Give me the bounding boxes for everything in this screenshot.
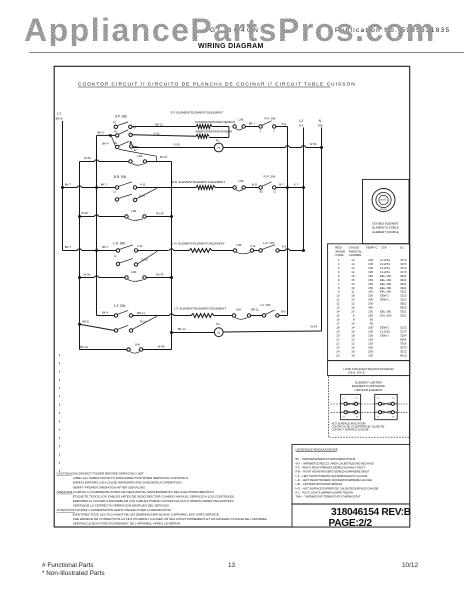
- svg-text:W-39: W-39: [81, 211, 88, 215]
- svg-text:L.R. - LEFT REAR/TRASERO IZQUI: L.R. - LEFT REAR/TRASERO IZQUIERDO/ARRIE…: [296, 478, 373, 482]
- svg-text:4A: 4A: [133, 127, 136, 130]
- svg-text:9-A: 9-A: [299, 124, 304, 128]
- svg-text:W-39: W-39: [84, 156, 91, 160]
- svg-text:INNER/INTERIOR/INTERIEUR: INNER/INTERIOR/INTERIEUR: [195, 130, 232, 134]
- svg-text:L.R. SW.: L.R. SW.: [113, 242, 126, 246]
- svg-text:N: N: [319, 119, 322, 123]
- svg-text:BK-11: BK-11: [155, 123, 163, 127]
- svg-text:L2: L2: [273, 190, 276, 194]
- svg-text:CAUTION:DISCONNECT POWER BEFOR: CAUTION:DISCONNECT POWER BEFORE SERVICIN…: [57, 472, 145, 476]
- svg-text:L1: L1: [57, 112, 61, 116]
- svg-text:R1-97: R1-97: [156, 273, 164, 277]
- svg-text:L.R. ELEMENT/ELEMENTO/ELEMENT: L.R. ELEMENT/ELEMENTO/ELEMENT: [172, 242, 225, 246]
- svg-text:LIM. - LIMITER/LIMITADOR/LIMIT: LIM. - LIMITER/LIMITADOR/LIMITEUR: [296, 482, 343, 486]
- svg-text:2: 2: [260, 128, 262, 132]
- svg-text:BK-7: BK-7: [249, 121, 256, 125]
- svg-text:W-54: W-54: [310, 324, 317, 328]
- svg-text:W.F. - WARMER ZONE(CO). AREA C: W.F. - WARMER ZONE(CO). AREA CALIENTE/ZO…: [296, 461, 374, 465]
- svg-text:318046154 REV:B: 318046154 REV:B: [331, 507, 411, 518]
- svg-text:L.F. - LEFT FRONT/FRENTE IZQUI: L.F. - LEFT FRONT/FRENTE IZQUIERDO/AVANT…: [296, 474, 368, 478]
- svg-text:ATTENTION:COUPEZ L'ALIMENTATIO: ATTENTION:COUPEZ L'ALIMENTATION AVANT D'…: [57, 508, 172, 512]
- svg-text:IDENTIFIEZ TOUS LES FILS AVANT: IDENTIFIEZ TOUS LES FILS AVANT DE LES DE…: [73, 513, 220, 517]
- svg-text:L2: L2: [299, 119, 303, 123]
- svg-text:S.P. ELEMENT/ELEMENTO/ELEMENT: S.P. ELEMENT/ELEMENTO/ELEMENT: [170, 111, 223, 115]
- svg-text:BK-7: BK-7: [65, 183, 72, 187]
- svg-text:VERIFIEZ LE BON FONCTIONNEMENT: VERIFIEZ LE BON FONCTIONNEMENT DE L'APPA…: [73, 522, 181, 526]
- svg-text:W-39: W-39: [84, 273, 91, 277]
- svg-text:SEW-1: SEW-1: [380, 334, 389, 338]
- svg-text:3251: 3251: [400, 314, 407, 318]
- svg-text:8510: 8510: [400, 353, 407, 357]
- svg-text:S.P. SW.: S.P. SW.: [115, 115, 127, 119]
- svg-text:W-08: W-08: [158, 345, 165, 349]
- svg-text:BK-7: BK-7: [101, 183, 108, 187]
- svg-text:ELEMENT DOUBLE: ELEMENT DOUBLE: [372, 230, 398, 234]
- svg-text:SEW-1: SEW-1: [380, 298, 389, 302]
- svg-text:BR-11: BR-11: [251, 308, 259, 312]
- svg-text:BK-8: BK-8: [56, 117, 63, 121]
- svg-text:LIM.: LIM.: [131, 270, 137, 274]
- svg-text:150: 150: [368, 353, 373, 357]
- svg-text:UNE ERREUR DE CONNECTION AU FI: UNE ERREUR DE CONNECTION AU FILS POURRAI…: [73, 517, 269, 521]
- svg-text:R.R. SW.: R.R. SW.: [264, 175, 277, 179]
- svg-text:L.F. SW.: L.F. SW.: [114, 304, 126, 308]
- svg-text:BK-8: BK-8: [83, 320, 90, 324]
- svg-text:25: 25: [336, 353, 340, 357]
- svg-text:BK-5: BK-5: [98, 130, 105, 134]
- svg-text:S.B.D. W.A.D.: S.B.D. W.A.D.: [348, 371, 366, 375]
- svg-text:R.F. - RIGHT FRONT/FRENTE DERE: R.F. - RIGHT FRONT/FRENTE DERECHO/AVANT …: [296, 466, 366, 470]
- svg-text:A-6: A-6: [282, 245, 287, 249]
- svg-text:P2: P2: [113, 122, 117, 125]
- svg-text:BY-97: BY-97: [160, 155, 168, 159]
- svg-text:LIMITEUR ELEMENT: LIMITEUR ELEMENT: [355, 388, 383, 392]
- svg-text:1: 1: [273, 128, 275, 132]
- svg-text:BK-4: BK-4: [102, 141, 109, 145]
- svg-text:LABEL ALL WIRES PRIOR TO DISCO: LABEL ALL WIRES PRIOR TO DISCONNECTION W…: [73, 476, 189, 480]
- svg-text:LIM.: LIM.: [237, 243, 243, 247]
- svg-text:ELEM 2: ELEM 2: [380, 209, 387, 211]
- svg-text:CONTACT SURFACE CHAUDE: CONTACT SURFACE CHAUDE: [332, 427, 369, 431]
- svg-text:LIM.: LIM.: [135, 342, 141, 346]
- svg-text:18: 18: [351, 353, 355, 357]
- svg-text:B.R. SW.: B.R. SW.: [114, 175, 127, 179]
- svg-text:WIRING ERRORS CAN CAUSE IMPROP: WIRING ERRORS CAN CAUSE IMPROPER AND DAN…: [73, 481, 183, 485]
- svg-text:VERIFIQUE LA CORRECTA OPERACIO: VERIFIQUE LA CORRECTA OPERACION DESPUES …: [73, 503, 170, 507]
- svg-text:CSA: CSA: [381, 246, 387, 250]
- svg-text:R1-97: R1-97: [156, 212, 164, 216]
- svg-text:UL: UL: [400, 246, 404, 250]
- svg-text:BK-7: BK-7: [65, 245, 72, 249]
- svg-text:OUTER/EXTERIOR/EXTERIEUR: OUTER/EXTERIOR/EXTERIEUR: [195, 120, 235, 124]
- svg-text:L1: L1: [113, 189, 116, 193]
- svg-text:LIM.: LIM.: [131, 209, 137, 213]
- svg-text:ETIQUETE TODOS LOS CABLES ANTE: ETIQUETE TODOS LOS CABLES ANTES DE DESCO…: [73, 494, 235, 498]
- svg-text:SGL-160: SGL-160: [380, 314, 392, 318]
- svg-text:Y-11: Y-11: [250, 244, 256, 248]
- svg-text:X-7: X-7: [294, 183, 299, 187]
- svg-text:LIM.: LIM.: [236, 308, 242, 312]
- svg-text:5-A: 5-A: [282, 122, 286, 126]
- svg-text:L.F. ELEMENT/ELEMENTO/ELEMENT: L.F. ELEMENT/ELEMENTO/ELEMENT: [174, 306, 226, 310]
- svg-text:BK. - MASTER/INTERRUPTOR/INTE: BK. - MASTER/INTERRUPTOR/INTERRUPTEUR: [296, 457, 356, 461]
- svg-text:BK-13: BK-13: [80, 345, 88, 349]
- svg-text:B.R. ELEMENT/ELEMENTO/ELEMENT: B.R. ELEMENT/ELEMENTO/ELEMENT: [172, 180, 225, 184]
- svg-text:S2: S2: [134, 149, 138, 152]
- svg-text:9-B: 9-B: [318, 124, 323, 128]
- svg-text:R.R. - RIGHT REAR/TRASERO DERE: R.R. - RIGHT REAR/TRASERO DERECHO/ARRIER…: [296, 470, 370, 474]
- svg-text:A-11: A-11: [140, 182, 146, 186]
- svg-text:ERRORES AL VOLVER A ENSAMBLAR: ERRORES AL VOLVER A ENSAMBLAR LOS CABLES…: [73, 499, 235, 503]
- svg-text:R.F. SW.: R.F. SW.: [265, 117, 277, 121]
- svg-text:LIM.: LIM.: [137, 154, 143, 158]
- svg-text:LIM.: LIM.: [239, 179, 245, 183]
- svg-text:LEGEND/LEYENDA/LEGENDE: LEGEND/LEYENDA/LEGENDE: [296, 447, 338, 451]
- svg-text:R-16: R-16: [140, 319, 147, 323]
- svg-text:ELEM 1: ELEM 1: [380, 200, 387, 202]
- svg-text:P.L. - PILOT LIGHT/LAMPARA/LAM: P.L. - PILOT LIGHT/LAMPARA/LAMPE TEMOIN: [296, 490, 354, 494]
- svg-text:O-11: O-11: [154, 132, 160, 136]
- svg-text:BK-7: BK-7: [102, 245, 109, 249]
- svg-text:H.S. - HOT SURFACE/SUPERFICIE: H.S. - HOT SURFACE/SUPERFICIE CALIENTE/S…: [296, 486, 379, 490]
- svg-text:VERIFY PROPER OPERATION AFTER: VERIFY PROPER OPERATION AFTER SERVICING.: [73, 485, 147, 489]
- svg-text:W-54: W-54: [310, 142, 317, 146]
- svg-text:CALIBRE: CALIBRE: [349, 253, 361, 257]
- svg-text:B-7: B-7: [279, 183, 284, 187]
- svg-text:B2: B2: [260, 190, 264, 194]
- svg-text:BK-14: BK-14: [178, 327, 186, 331]
- svg-text:BR-11: BR-11: [137, 311, 145, 315]
- svg-text:Y-11: Y-11: [137, 244, 143, 248]
- svg-text:BK-4: BK-4: [102, 310, 109, 314]
- svg-text:P1: P1: [114, 130, 118, 133]
- svg-text:PAGE:2/2: PAGE:2/2: [329, 518, 373, 529]
- svg-text:ATENCION:CORTAR LA CORRIENTE A: ATENCION:CORTAR LA CORRIENTE ANTES DE RE…: [57, 490, 215, 494]
- svg-text:B-11: B-11: [252, 183, 258, 187]
- svg-text:O-39: O-39: [174, 143, 181, 147]
- svg-text:CODE: CODE: [335, 253, 343, 257]
- svg-text:TEMP.°C: TEMP.°C: [366, 246, 378, 250]
- svg-text:COOKTOP CIRCUIT // CIRCUITO DE: COOKTOP CIRCUIT // CIRCUITO DE PLANCHA D…: [78, 81, 356, 87]
- svg-text:L1: L1: [114, 254, 117, 258]
- svg-text:L.F. SW.: L.F. SW.: [260, 303, 271, 307]
- svg-text:L.R. SW.: L.R. SW.: [263, 241, 275, 245]
- svg-text:P.L.: P.L.: [216, 138, 221, 142]
- svg-text:THM. - THERMOSTAT/TERMOSTATO/T: THM. - THERMOSTAT/TERMOSTATO/THERMOSTAT: [296, 495, 361, 499]
- svg-text:P.L.: P.L.: [216, 322, 221, 326]
- svg-text:LIM.: LIM.: [239, 118, 245, 122]
- svg-text:B-6: B-6: [281, 309, 286, 313]
